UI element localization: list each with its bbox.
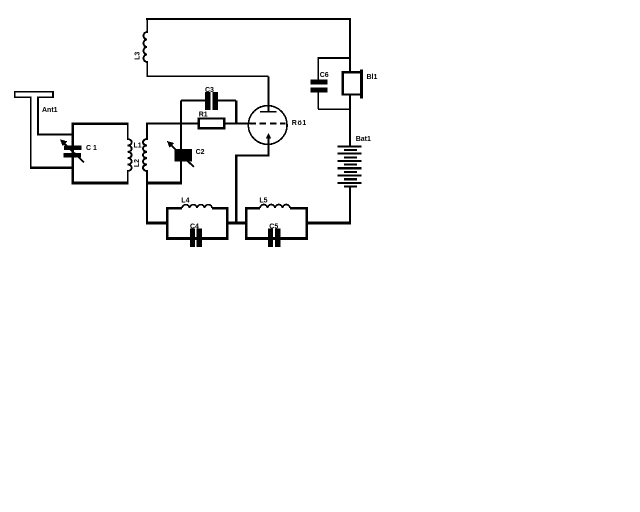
tube Rö1 (triode) <box>248 106 287 145</box>
headphone Bl1 <box>343 70 363 99</box>
svg-text:L1: L1 <box>134 142 142 149</box>
wire grid right <box>226 122 250 124</box>
antenna top bar <box>15 92 53 97</box>
wire right loop bottom <box>146 182 182 185</box>
tank circuit L4 C4 <box>166 205 228 240</box>
svg-text:L3: L3 <box>134 52 141 60</box>
svg-text:C5: C5 <box>269 224 278 231</box>
wire grid left <box>146 122 198 124</box>
coil L1 <box>128 123 132 184</box>
wire C3 branch left <box>181 100 205 102</box>
wire left loop top <box>72 122 129 124</box>
svg-text:Bl1: Bl1 <box>367 74 378 81</box>
resistor R1 <box>199 119 225 129</box>
wire cathode down <box>236 143 268 224</box>
svg-text:C2: C2 <box>196 149 205 156</box>
antenna stem right line <box>37 98 39 136</box>
battery Bat1 <box>337 145 361 187</box>
wire antenna upper lead <box>37 133 72 135</box>
svg-text:C 1: C 1 <box>86 145 97 152</box>
capacitor C5 <box>268 228 280 247</box>
wire C3 branch right <box>218 100 236 102</box>
antenna stem left line <box>30 98 32 169</box>
svg-text:Rö1: Rö1 <box>292 120 307 127</box>
coil L2 <box>143 123 147 224</box>
capacitor C3 <box>205 92 218 110</box>
wire top horizontal <box>146 18 351 20</box>
svg-text:R1: R1 <box>199 111 208 118</box>
grid dashes <box>249 123 285 125</box>
wire C6 branch bottom <box>318 108 350 110</box>
wire C6 upper lead <box>317 57 319 80</box>
wire plate lead <box>268 76 270 111</box>
wire left loop bottom <box>72 182 129 185</box>
wire Bl1 to battery <box>349 96 351 146</box>
wire C2 vertical <box>180 101 182 184</box>
wire right main vertical top <box>349 18 351 72</box>
coil L4 <box>182 205 212 209</box>
wire left loop left edge <box>72 123 74 185</box>
capacitor C6 <box>311 80 328 93</box>
coil L5 <box>260 204 290 208</box>
wire tank1 to L2 branch <box>146 222 167 225</box>
svg-text:Ant1: Ant1 <box>42 107 58 114</box>
svg-text:L4: L4 <box>181 198 189 205</box>
tank circuit L5 C5 <box>245 204 308 239</box>
wire bottom right to tank2 <box>307 222 351 225</box>
cathode lead inside <box>268 138 270 144</box>
svg-text:Bat1: Bat1 <box>356 136 371 143</box>
wire C6 lower lead <box>317 93 319 110</box>
svg-text:C4: C4 <box>190 224 199 231</box>
svg-text:C3: C3 <box>205 87 214 94</box>
wire C3 down to grid <box>235 101 237 124</box>
svg-text:C6: C6 <box>320 72 329 79</box>
coil L3 <box>143 18 147 76</box>
wire antenna lower lead <box>30 167 73 169</box>
wire C6 branch top <box>318 57 350 59</box>
wire battery bottom <box>349 187 351 224</box>
svg-text:L2: L2 <box>134 159 141 167</box>
antenna Ant1 <box>15 92 73 169</box>
capacitor C2 (variable) <box>167 141 194 167</box>
plate bar <box>260 111 277 113</box>
wire L3 to plate lead <box>147 75 269 77</box>
wire tank2 to tank1 <box>227 222 246 225</box>
capacitor C1 (variable) <box>60 139 84 162</box>
svg-text:L5: L5 <box>259 198 267 205</box>
capacitor C4 <box>190 228 202 247</box>
